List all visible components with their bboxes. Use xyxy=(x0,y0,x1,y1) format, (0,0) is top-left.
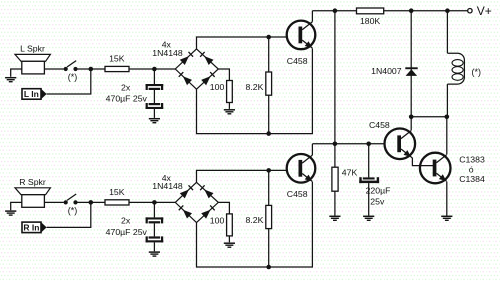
svg-text:1N4148: 1N4148 xyxy=(152,181,183,191)
svg-text:15K: 15K xyxy=(109,187,125,197)
svg-text:47K: 47K xyxy=(342,168,358,178)
svg-text:C458: C458 xyxy=(287,56,308,66)
svg-text:C1383: C1383 xyxy=(459,155,485,165)
svg-text:R In: R In xyxy=(23,222,39,232)
svg-text:1N4007: 1N4007 xyxy=(371,66,402,76)
svg-text:1N4148: 1N4148 xyxy=(152,48,183,58)
svg-text:R Spkr: R Spkr xyxy=(19,177,46,187)
svg-text:C458: C458 xyxy=(369,120,390,130)
svg-text:ó: ó xyxy=(469,164,474,174)
svg-text:8.2K: 8.2K xyxy=(246,215,264,225)
svg-text:470µF 25v: 470µF 25v xyxy=(106,227,148,237)
svg-text:8.2K: 8.2K xyxy=(246,82,264,92)
svg-text:(*): (*) xyxy=(472,67,482,77)
svg-text:L In: L In xyxy=(24,89,39,99)
svg-text:25v: 25v xyxy=(370,197,385,207)
svg-text:C458: C458 xyxy=(287,189,308,199)
svg-text:2x: 2x xyxy=(121,82,131,92)
svg-text:100: 100 xyxy=(210,216,225,226)
svg-text:2x: 2x xyxy=(121,216,131,226)
svg-text:220µF: 220µF xyxy=(366,186,391,196)
svg-text:15K: 15K xyxy=(109,54,125,64)
svg-text:100: 100 xyxy=(210,82,225,92)
svg-text:(*): (*) xyxy=(68,205,78,215)
svg-text:L Spkr: L Spkr xyxy=(20,44,45,54)
svg-text:470µF 25v: 470µF 25v xyxy=(106,94,148,104)
svg-text:180K: 180K xyxy=(360,16,380,26)
svg-text:(*): (*) xyxy=(68,72,78,82)
svg-text:C1384: C1384 xyxy=(459,174,485,184)
svg-text:V+: V+ xyxy=(477,4,492,18)
